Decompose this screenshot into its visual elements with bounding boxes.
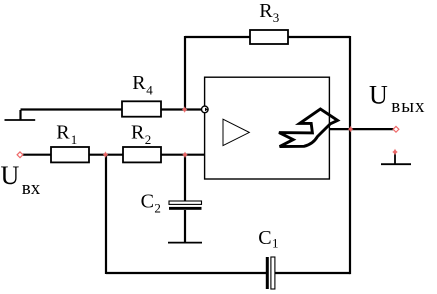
label R3 <box>259 0 279 25</box>
wire bottom left segment to C1 <box>106 272 266 274</box>
ground left <box>5 110 36 120</box>
svg-text:4: 4 <box>146 82 153 97</box>
op-amp U1 input pin arrow <box>205 108 208 112</box>
op-amp U1 inverting input bubble <box>202 106 209 113</box>
wire ground to R4 <box>21 108 123 110</box>
svg-text:3: 3 <box>273 10 280 25</box>
capacitor C1 left plate <box>266 257 269 289</box>
resistor R1 <box>51 147 89 162</box>
capacitor C2 top plate <box>169 201 202 204</box>
label R1 <box>56 122 77 147</box>
node B junction star <box>103 151 109 157</box>
svg-text:R: R <box>132 72 146 94</box>
op-amp U1 curved arrow symbol <box>279 109 338 147</box>
wire R4 to inverting input bubble <box>161 108 202 110</box>
resistor R4 <box>122 101 161 116</box>
label U output <box>369 80 426 117</box>
op-amp U1 triangle <box>223 119 249 145</box>
wire op-amp output to terminal <box>330 128 394 130</box>
ground C2 bar <box>168 242 202 244</box>
wire R2 to op-amp lower input <box>161 154 205 156</box>
wire R1 to R2 <box>89 154 123 156</box>
node output junction star <box>348 126 354 132</box>
svg-text:2: 2 <box>154 200 161 215</box>
svg-text:2: 2 <box>145 132 152 147</box>
svg-text:R: R <box>259 0 273 22</box>
wire left vertical feedback down to inverting input <box>184 36 186 109</box>
svg-text:1: 1 <box>71 132 78 147</box>
node input terminal diamond <box>17 152 23 158</box>
wire vertical from node B down to bottom wire <box>105 154 107 274</box>
capacitor C2 bottom plate <box>169 207 202 210</box>
svg-text:R: R <box>56 122 70 144</box>
resistor R3 <box>250 30 288 44</box>
wire top feedback from node A to output net <box>185 36 350 38</box>
wire bottom right segment from C1 <box>275 272 350 274</box>
wire C2 to ground bar <box>184 210 186 243</box>
svg-text:R: R <box>131 122 145 144</box>
capacitor C1 right plate <box>271 257 275 289</box>
label R4 <box>132 72 153 97</box>
svg-text:U: U <box>1 161 20 190</box>
label R2 <box>131 122 151 147</box>
node C junction star <box>182 152 188 158</box>
svg-text:вых: вых <box>391 96 425 117</box>
node output terminal diamond <box>393 126 399 132</box>
label C1 <box>258 227 278 250</box>
resistor R2 <box>123 147 161 162</box>
node A junction star <box>182 106 188 112</box>
svg-text:вх: вх <box>22 178 41 199</box>
label U input <box>1 161 41 199</box>
svg-text:C: C <box>258 227 271 249</box>
label C2 <box>141 191 161 216</box>
wire input terminal to R1 <box>20 154 51 156</box>
wire right vertical output net <box>349 36 351 274</box>
ground right <box>381 153 411 165</box>
svg-text:C: C <box>141 191 154 213</box>
op-amp U1 box <box>205 77 330 179</box>
svg-text:U: U <box>369 80 388 109</box>
node right ground star <box>392 149 398 155</box>
svg-text:1: 1 <box>272 235 279 250</box>
wire node C down to C2 <box>184 155 186 201</box>
